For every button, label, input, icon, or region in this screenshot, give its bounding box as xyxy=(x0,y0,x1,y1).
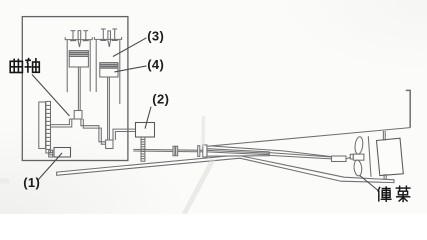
valve V2a stem xyxy=(102,29,104,39)
shaft aft stub xyxy=(346,157,351,159)
injector J2 xyxy=(108,31,111,47)
propeller hub xyxy=(353,154,364,160)
valve V1b stem xyxy=(85,31,87,40)
connecting rod R1 xyxy=(78,67,80,111)
valve V2b disc xyxy=(112,39,118,41)
rudder bottom post xyxy=(384,174,386,180)
pointer to label (1) xyxy=(38,153,62,180)
engine housing box xyxy=(22,17,128,161)
svg-text:(4): (4) xyxy=(147,57,164,72)
valve V1a disc xyxy=(70,39,76,41)
crank pin K1 xyxy=(74,111,82,120)
stern tube line bottom xyxy=(269,155,331,159)
piston P2 xyxy=(100,63,118,77)
rudder xyxy=(377,138,404,175)
pointer from label crankshaft xyxy=(32,75,70,117)
valve V2b cap xyxy=(112,28,117,30)
rudder top post xyxy=(383,131,385,141)
svg-text:(2): (2) xyxy=(152,92,169,107)
flywheel gear ladder xyxy=(46,101,51,153)
pointer to label (2) xyxy=(145,107,151,129)
pointer to label (3) xyxy=(113,38,147,57)
crankshaft web lines xyxy=(51,119,136,144)
propeller blade bottom xyxy=(353,160,362,177)
cylinder C2 head xyxy=(94,37,121,39)
svg-text:(3): (3) xyxy=(147,29,164,44)
pointer to label propeller xyxy=(360,176,378,191)
cylinder C2 right wall xyxy=(119,39,121,104)
valve V1b disc xyxy=(83,39,89,41)
pinion gear xyxy=(49,150,53,157)
stern tube tapered barrel xyxy=(207,149,269,157)
cylinder C2 left wall xyxy=(95,39,97,92)
valve V1a stem xyxy=(72,31,74,40)
pointer to label (4) xyxy=(115,66,147,72)
flywheel body xyxy=(39,102,46,149)
shaft line inside tube xyxy=(207,150,269,153)
ribbed coupling column xyxy=(141,137,145,161)
crank pin K2 xyxy=(106,140,113,149)
coupling A flange 2 xyxy=(176,146,178,156)
gearbox (2) xyxy=(136,123,155,138)
valve V2a cap xyxy=(101,28,106,30)
propeller blade top xyxy=(354,136,364,154)
hull bottom strip with keel and skeg xyxy=(57,155,394,183)
scan smudge artifacts xyxy=(0,116,213,214)
stern tube bearing xyxy=(332,156,347,162)
hull wedge line xyxy=(210,146,332,157)
cylinder C1 left wall xyxy=(66,40,68,93)
valve V2b stem xyxy=(114,29,116,39)
pointer lines xyxy=(32,38,378,190)
coupling B flange xyxy=(198,146,200,157)
valve V1b cap xyxy=(83,30,88,32)
stern tube line top xyxy=(269,153,331,157)
transom line xyxy=(368,136,371,177)
connecting rod R2 xyxy=(108,77,110,140)
flag pole xyxy=(406,90,410,127)
valve V1a cap xyxy=(71,30,76,32)
valve V2a disc xyxy=(100,39,106,41)
starter box (1) xyxy=(54,148,71,158)
label text 曲轴 crankshaft glyphs xyxy=(10,58,39,73)
deck sheer line xyxy=(207,128,410,147)
propeller shaft fore xyxy=(133,149,207,152)
shaft collar xyxy=(350,154,353,159)
label text 俥葉 propeller glyphs xyxy=(378,186,411,203)
coupling A flange 1 xyxy=(173,146,175,156)
injector J1 xyxy=(78,31,81,47)
cylinder C1 right wall xyxy=(89,40,91,92)
cylinder C1 head xyxy=(65,37,92,39)
svg-text:(1): (1) xyxy=(23,175,40,190)
piston P1 xyxy=(69,51,88,67)
coupling B block xyxy=(203,145,207,157)
